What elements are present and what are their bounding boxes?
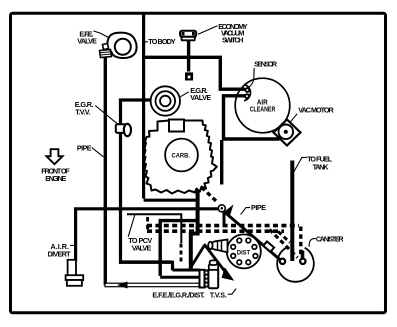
svg-text:PIPE: PIPE	[77, 143, 92, 152]
svg-text:SENSOR: SENSOR	[254, 60, 278, 69]
svg-text:SWITCH: SWITCH	[222, 35, 243, 44]
svg-text:CLEANER: CLEANER	[250, 105, 276, 114]
svg-text:VALVE: VALVE	[132, 243, 152, 252]
svg-text:TANK: TANK	[313, 163, 330, 172]
svg-text:CARB.: CARB.	[172, 153, 191, 160]
svg-text:VALVE: VALVE	[77, 37, 97, 46]
svg-text:TO BODY: TO BODY	[148, 37, 176, 46]
svg-text:VALVE: VALVE	[190, 93, 211, 102]
svg-text:DIVERT: DIVERT	[48, 249, 72, 258]
svg-text:PIPE: PIPE	[251, 203, 266, 212]
svg-text:T.V.S.: T.V.S.	[210, 290, 227, 299]
svg-text:VAC MOTOR: VAC MOTOR	[298, 105, 334, 114]
svg-text:CANISTER: CANISTER	[316, 235, 344, 244]
svg-text:T.V.V.: T.V.V.	[75, 108, 90, 117]
svg-text:E.F.E./E.G.R./DIST.: E.F.E./E.G.R./DIST.	[152, 290, 204, 299]
svg-text:DIST: DIST	[237, 249, 250, 256]
svg-text:ENGINE: ENGINE	[45, 174, 66, 183]
